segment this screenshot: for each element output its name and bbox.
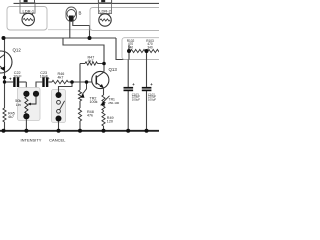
svg-text:340: 340	[128, 45, 134, 49]
svg-text:+: +	[9, 77, 12, 82]
transistor Q12	[0, 51, 12, 73]
svg-text:47k: 47k	[87, 113, 93, 117]
wire TR1 to R49	[103, 111, 105, 112]
capacitor C103	[124, 87, 134, 89]
LDR-1 group outline box	[7, 7, 47, 31]
potentiometer gray box	[18, 88, 41, 121]
wire rail corner down to right module	[116, 38, 128, 60]
wire riser to pot 13	[25, 82, 27, 91]
trimmer TR1	[102, 95, 105, 111]
wire resistor row links	[129, 45, 148, 60]
resistor R47	[80, 63, 104, 65]
LDR-2 photoresistor circle	[99, 14, 111, 26]
resistor R46	[52, 80, 68, 83]
LDR-2 top blob	[101, 0, 105, 2]
svg-text:+: +	[150, 82, 153, 87]
svg-text:+: +	[132, 82, 135, 87]
svg-text:4k7: 4k7	[8, 115, 14, 119]
svg-text:100µF: 100µF	[148, 97, 156, 101]
wire switch to base node	[59, 82, 73, 92]
svg-text:Q12: Q12	[13, 48, 22, 53]
potentiometer VR 50k element	[25, 97, 28, 114]
resistor R103	[148, 49, 161, 52]
svg-text:LDR-1: LDR-1	[23, 8, 35, 13]
wire switch to ground rail	[58, 121, 60, 131]
wire main horizontal rail	[4, 37, 117, 39]
LDR-1 package box	[20, 3, 35, 14]
pin terminal 12	[33, 91, 39, 97]
switch CANCEL contacts	[56, 92, 62, 98]
lamp B filament block	[69, 16, 74, 22]
wire TR2 to R48	[79, 101, 81, 108]
lamp B envelope	[66, 7, 77, 22]
wire lamp lead to rail	[70, 21, 90, 39]
resistor module gray box	[122, 38, 161, 60]
lamp B inner circle	[67, 10, 76, 19]
capacitor C102	[142, 87, 152, 89]
wire R47 left leg down	[79, 64, 81, 91]
svg-text:4k7: 4k7	[58, 75, 64, 79]
svg-text:CANCEL: CANCEL	[49, 138, 66, 143]
svg-text:Lin: Lin	[16, 103, 21, 107]
resistor R45	[3, 108, 6, 122]
pin terminal 13	[23, 91, 29, 97]
capacitor C22	[5, 81, 14, 83]
svg-text:INTENSITY: INTENSITY	[21, 138, 42, 143]
wire C103 column	[127, 60, 129, 132]
svg-text:LDR-2: LDR-2	[99, 9, 111, 14]
wire R48 to ground rail	[79, 121, 81, 131]
svg-text:4k7: 4k7	[88, 59, 94, 63]
svg-text:10µF: 10µF	[13, 74, 22, 78]
wire R46 to Q13 base	[68, 81, 92, 83]
svg-text:14: 14	[25, 115, 29, 119]
wire C102 column	[146, 51, 148, 131]
wire top supply rail	[14, 2, 160, 4]
LDR-1 zigzag element	[23, 18, 33, 20]
switch lever	[60, 101, 65, 110]
wire riser pot 12 to C23	[36, 82, 42, 91]
resistor R102	[131, 49, 146, 52]
LDR-2 group outline box	[90, 8, 159, 31]
svg-text:340: 340	[147, 45, 153, 49]
svg-text:120: 120	[107, 119, 113, 123]
LDR-1 top ticks	[20, 0, 35, 3]
svg-text:100µF: 100µF	[132, 97, 140, 101]
transistor Q13	[92, 71, 109, 88]
ground rail	[0, 130, 159, 132]
resistor R49	[102, 112, 105, 127]
LDR-1 lead stubs	[24, 13, 33, 15]
LDR-2 package box	[98, 3, 111, 14]
resistor R48	[78, 108, 81, 121]
trimmer TR1 wiper arrow	[102, 96, 110, 104]
wire branch to Q13 collector	[63, 38, 104, 72]
wire Q12 emitter down left column	[4, 73, 6, 132]
wire R49 to ground rail	[103, 126, 105, 131]
capacitor C23	[42, 77, 44, 87]
LDR-2 zigzag element	[100, 19, 110, 21]
wire Q13 emitter down	[103, 88, 105, 95]
LDR-1 top blob	[24, 0, 28, 2]
pin terminal 14	[23, 113, 29, 119]
svg-text:12: 12	[34, 92, 38, 96]
svg-text:Q13: Q13	[109, 67, 118, 72]
svg-text:B: B	[79, 11, 82, 16]
wire pot 14 to ground rail	[25, 119, 27, 131]
LDR-2 top ticks	[98, 0, 111, 3]
svg-text:13: 13	[25, 92, 29, 96]
svg-text:100k: 100k	[90, 100, 98, 104]
LDR-2 lead stubs	[101, 14, 109, 16]
svg-text:250-100: 250-100	[108, 101, 119, 105]
node ground faint section line	[48, 29, 92, 31]
switch gray box	[52, 90, 66, 123]
svg-text:+: +	[47, 76, 50, 81]
trimmer TR2 wiper	[82, 82, 87, 95]
junction dots	[2, 36, 6, 40]
trimmer TR2	[78, 90, 81, 101]
potentiometer wiper arrow	[31, 97, 37, 104]
LDR-1 photoresistor circle	[22, 13, 34, 25]
